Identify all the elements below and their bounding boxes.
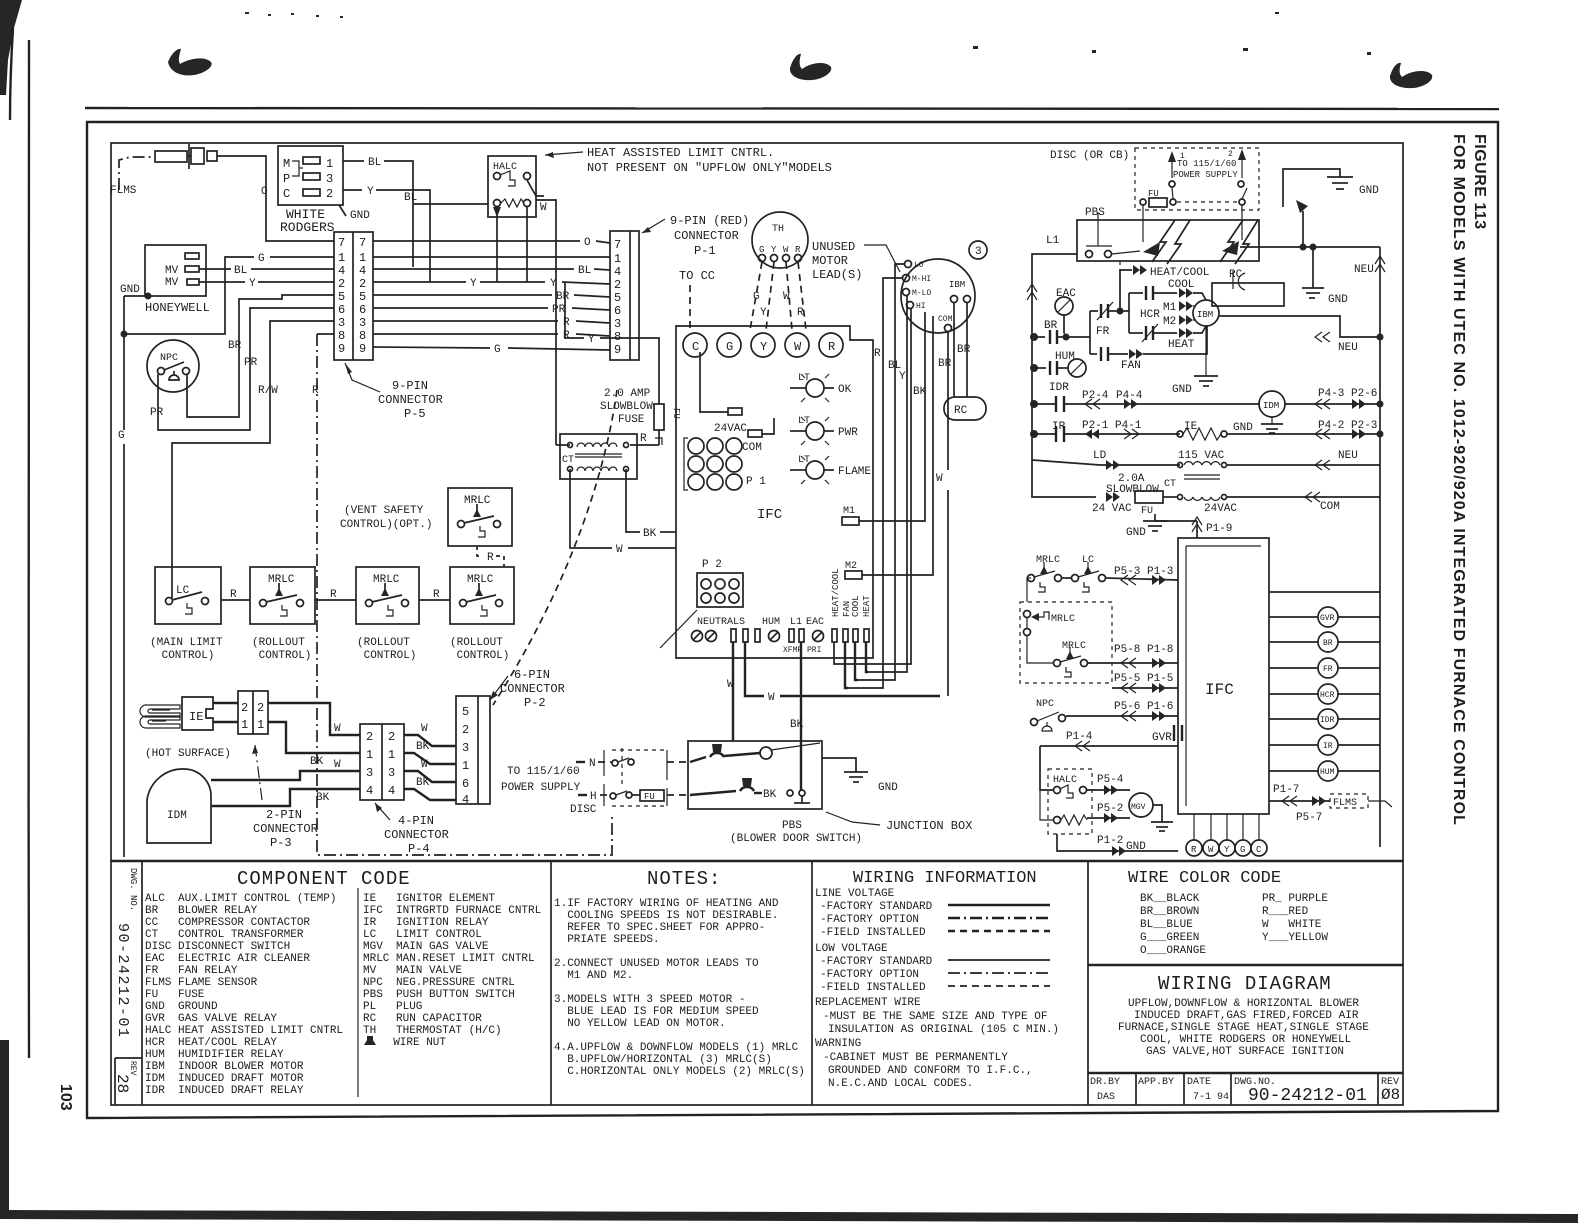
- svg-text:3: 3: [326, 172, 333, 186]
- svg-text:DATE: DATE: [1187, 1077, 1211, 1088]
- svg-text:TO 115/1/60: TO 115/1/60: [1177, 159, 1236, 169]
- svg-text:NPC: NPC: [1036, 699, 1054, 710]
- svg-text:OK: OK: [838, 384, 852, 396]
- svg-text:C: C: [1256, 845, 1262, 855]
- label TO CC: [679, 269, 715, 330]
- svg-text:CONNECTOR: CONNECTOR: [378, 393, 443, 407]
- capacitor HUM row: [1034, 351, 1086, 377]
- svg-text:24VAC: 24VAC: [1204, 503, 1237, 515]
- svg-text:NOTES:: NOTES:: [647, 868, 721, 890]
- svg-text:FAN: FAN: [1121, 360, 1141, 372]
- wiring information text: [815, 888, 1059, 1090]
- svg-text:2.0 AMP: 2.0 AMP: [604, 388, 651, 400]
- label 9-PIN (RED) CONNECTOR P-1: [642, 214, 749, 258]
- svg-text:P: P: [283, 172, 290, 186]
- ground symbol at junction box: [844, 772, 898, 794]
- svg-text:(ROLLOUT: (ROLLOUT: [450, 637, 503, 649]
- relay FR: [1269, 658, 1380, 678]
- wire Y from HALC bottom: [497, 207, 527, 282]
- circled 3: [969, 241, 987, 259]
- svg-text:PL PLUG: PL PLUG: [363, 1001, 422, 1013]
- svg-text:-CABINET MUST BE PERMANENTLY: -CABINET MUST BE PERMANENTLY: [823, 1052, 1008, 1064]
- svg-text:P 1: P 1: [746, 476, 766, 488]
- wire legend line samples: [948, 905, 1050, 986]
- svg-text:BK: BK: [643, 528, 657, 540]
- terminal M2: [845, 561, 862, 579]
- svg-text:CONTROL): CONTROL): [357, 650, 416, 662]
- svg-text:LT: LT: [798, 373, 810, 384]
- svg-text:CT: CT: [562, 455, 574, 466]
- svg-text:MRLC: MRLC: [1036, 555, 1060, 566]
- component code divider: [357, 888, 359, 1097]
- riser to HEAT/COOL arrow: [1120, 270, 1132, 311]
- quick connect 24VAC: [700, 352, 747, 435]
- svg-text:G: G: [753, 291, 760, 303]
- svg-text:FLMS: FLMS: [1333, 798, 1357, 809]
- junction wires inside: [690, 753, 810, 803]
- svg-text:W: W: [768, 692, 775, 704]
- svg-text:2: 2: [241, 701, 248, 715]
- svg-text:(BLOWER DOOR SWITCH): (BLOWER DOOR SWITCH): [730, 833, 862, 845]
- svg-text:8: 8: [614, 330, 621, 344]
- label HEAT ASSISTED LIMIT CNTRL: [545, 146, 832, 175]
- svg-text:-FACTORY STANDARD: -FACTORY STANDARD: [820, 956, 933, 968]
- svg-text:UPFLOW,DOWNFLOW & HORIZONTAL B: UPFLOW,DOWNFLOW & HORIZONTAL BLOWER: [1128, 998, 1359, 1010]
- relay BR: [1269, 632, 1380, 652]
- svg-text:FIGURE 113: FIGURE 113: [1471, 134, 1488, 230]
- svg-text:GND: GND: [1126, 527, 1146, 539]
- svg-text:LC LIMIT CONTROL: LC LIMIT CONTROL: [363, 929, 482, 941]
- svg-text:4: 4: [614, 265, 621, 279]
- 9-pin connector P-5: [334, 232, 373, 360]
- wire color code divider: [1087, 861, 1089, 1105]
- svg-text:P5-7: P5-7: [1296, 812, 1322, 824]
- wire BR IBM pin to RC: [938, 303, 967, 397]
- svg-text:MV: MV: [165, 277, 179, 289]
- svg-text:MGV MAIN GAS VALVE: MGV MAIN GAS VALVE: [363, 941, 489, 953]
- svg-text:MRLC: MRLC: [1051, 614, 1075, 625]
- wiring diagram box top rule: [1088, 964, 1403, 966]
- svg-text:GAS VALVE,HOT SURFACE IGNITION: GAS VALVE,HOT SURFACE IGNITION: [1146, 1046, 1344, 1058]
- svg-text:CT: CT: [1164, 479, 1176, 490]
- svg-text:RODGERS: RODGERS: [280, 220, 335, 235]
- svg-text:W: W: [783, 291, 790, 303]
- svg-text:GND: GND: [120, 284, 140, 296]
- svg-text:G: G: [118, 430, 125, 442]
- wire BR pin5 staircase: [187, 295, 334, 417]
- svg-text:LD: LD: [1093, 450, 1107, 462]
- svg-text:W: W: [421, 723, 428, 735]
- svg-text:BK: BK: [316, 792, 330, 804]
- svg-text:BR BLOWER RELAY: BR BLOWER RELAY: [145, 905, 258, 917]
- svg-text:R: R: [828, 340, 835, 354]
- dashed drop from PBS to FR node: [1119, 261, 1121, 308]
- svg-text:H: H: [590, 791, 597, 803]
- svg-text:COOL: COOL: [1168, 279, 1194, 291]
- relay coil IDR row: [1032, 382, 1260, 412]
- svg-text:4: 4: [462, 793, 469, 807]
- flame sensor FLMS lead wire: [110, 157, 155, 197]
- lamp LT FLAME: [790, 455, 871, 484]
- control transformer CT right: [1106, 473, 1227, 500]
- wire R between MRLC2 and MRLC3: [419, 589, 450, 601]
- dwg-no sidebar: [113, 861, 142, 1105]
- svg-text:R: R: [312, 385, 319, 397]
- terminal W: [785, 333, 809, 357]
- svg-text:M-HI: M-HI: [912, 275, 931, 284]
- ground MGV: [1126, 805, 1173, 853]
- svg-text:FU: FU: [1141, 506, 1153, 517]
- white rodgers gas valve box: [278, 146, 343, 235]
- svg-text:R: R: [1191, 845, 1197, 855]
- svg-text:8: 8: [338, 329, 345, 343]
- main limit control LC box: [150, 567, 223, 662]
- node on L1 rail: [1030, 333, 1038, 438]
- wire W CT to IFC: [570, 469, 676, 556]
- relay HCR: [1269, 684, 1380, 704]
- wire nut 1: [710, 744, 724, 757]
- quick connect COM: [742, 418, 774, 454]
- svg-text:NPC NEG.PRESSURE CNTRL: NPC NEG.PRESSURE CNTRL: [363, 977, 515, 989]
- main gas valve MGV: [1129, 793, 1153, 817]
- svg-text:4: 4: [359, 264, 366, 278]
- svg-text:HUM HUMIDIFIER RELAY: HUM HUMIDIFIER RELAY: [145, 1049, 284, 1061]
- electric air cleaner EAC: [1055, 288, 1076, 337]
- wire P5-5 P1-5: [1112, 673, 1178, 693]
- svg-text:P1-2: P1-2: [1097, 835, 1123, 847]
- notes divider: [550, 861, 552, 1105]
- svg-text:XFMR PRI: XFMR PRI: [783, 646, 821, 655]
- svg-text:Y: Y: [588, 334, 595, 346]
- scan edge black bar bottom-left: [0, 1040, 9, 1215]
- svg-text:HALC: HALC: [1053, 775, 1077, 786]
- svg-text:P-2: P-2: [524, 696, 546, 710]
- svg-text:9-PIN (RED): 9-PIN (RED): [670, 214, 749, 228]
- svg-text:GROUNDED AND CONFORM TO I.F.C.: GROUNDED AND CONFORM TO I.F.C.,: [828, 1065, 1033, 1077]
- svg-text:BL: BL: [368, 157, 381, 169]
- svg-text:DR.BY: DR.BY: [1090, 1077, 1120, 1088]
- svg-text:HEAT ASSISTED LIMIT CNTRL.: HEAT ASSISTED LIMIT CNTRL.: [587, 146, 774, 160]
- relay IDR: [1269, 709, 1380, 729]
- wire IBM to NEU row: [1219, 316, 1384, 354]
- wire R between LC and MRLC1: [221, 589, 250, 601]
- svg-text:2-PIN: 2-PIN: [266, 808, 302, 822]
- svg-text:W: W: [421, 759, 428, 771]
- wire P5-3 P1-3: [1062, 566, 1178, 585]
- relay coil IR row: [1032, 420, 1180, 442]
- 2-pin connector P-3: [238, 691, 268, 734]
- wire L1 rail: [1027, 254, 1077, 460]
- svg-text:28: 28: [113, 1074, 131, 1093]
- svg-text:1: 1: [388, 748, 395, 762]
- svg-text:4.A.UPFLOW & DOWNFLOW MODELS (: 4.A.UPFLOW & DOWNFLOW MODELS (1) MRLC: [554, 1042, 799, 1054]
- svg-text:PR: PR: [244, 357, 258, 369]
- top rule line 2 / outer frame: [87, 122, 1498, 1118]
- wire Y bundle: [868, 296, 907, 672]
- svg-text:Y: Y: [550, 278, 557, 290]
- svg-text:LT: LT: [798, 416, 810, 427]
- svg-text:WARNING: WARNING: [815, 1038, 861, 1050]
- wire nut flag on L1 feed: [1296, 200, 1308, 247]
- svg-text:EAC ELECTRIC AIR CLEANER: EAC ELECTRIC AIR CLEANER: [145, 953, 310, 965]
- svg-text:IFC: IFC: [757, 507, 782, 523]
- svg-text:GVR GAS VALVE RELAY: GVR GAS VALVE RELAY: [145, 1013, 277, 1025]
- svg-text:9: 9: [338, 342, 345, 356]
- svg-text:5: 5: [614, 291, 621, 305]
- wire R/W pin3 staircase: [172, 321, 334, 598]
- svg-text:R: R: [874, 348, 881, 360]
- svg-text:(VENT SAFETY: (VENT SAFETY: [344, 505, 424, 517]
- svg-text:N: N: [589, 758, 596, 770]
- inner schematic frame: [111, 143, 1403, 1105]
- connector grid P 2: [660, 559, 743, 648]
- wiring information title: [853, 869, 1037, 888]
- scan edge wedge top-left: [0, 0, 22, 120]
- wire W CT primary: [556, 444, 570, 446]
- svg-text:HEAT/COOL: HEAT/COOL: [1150, 267, 1209, 279]
- heat assisted limit control HALC right dashed: [1040, 746, 1092, 834]
- svg-text:-MUST BE THE SAME SIZE AND TYP: -MUST BE THE SAME SIZE AND TYPE OF: [823, 1011, 1047, 1023]
- svg-text:Y: Y: [760, 340, 767, 354]
- node junction on G rail: [121, 331, 128, 338]
- svg-text:R: R: [563, 317, 570, 329]
- svg-text:W: W: [616, 544, 623, 556]
- svg-text:1.IF FACTORY WIRING OF HEATING: 1.IF FACTORY WIRING OF HEATING AND: [554, 898, 779, 910]
- svg-text:IDR INDUCED DRAFT RELAY: IDR INDUCED DRAFT RELAY: [145, 1085, 304, 1097]
- svg-text:FOR MODELS WITH UTEC NO. 1012-: FOR MODELS WITH UTEC NO. 1012-920/920A I…: [1450, 134, 1467, 826]
- bottom panel top rule: [111, 860, 1403, 862]
- svg-text:P1-9: P1-9: [1206, 523, 1232, 535]
- svg-text:TH: TH: [772, 224, 784, 235]
- terminal screws and slots: [692, 629, 870, 642]
- label DISC (OR CB): [1050, 150, 1129, 162]
- svg-text:BL: BL: [234, 265, 247, 277]
- wire W neutral slot2 right: [745, 642, 940, 704]
- svg-text:9: 9: [614, 343, 621, 357]
- wire P5-4 to MGV: [1087, 774, 1130, 795]
- svg-text:IDR: IDR: [1049, 382, 1069, 394]
- ignitor element IE hot surface plug: [140, 697, 213, 730]
- wire Y to fuse: [565, 282, 659, 396]
- svg-text:IR: IR: [1323, 742, 1333, 751]
- svg-text:HCR HEAT/COOL RELAY: HCR HEAT/COOL RELAY: [145, 1037, 277, 1049]
- svg-text:R: R: [230, 589, 237, 601]
- svg-text:Y: Y: [249, 278, 256, 290]
- svg-text:O: O: [584, 237, 591, 249]
- svg-text:UNUSED: UNUSED: [812, 240, 855, 254]
- svg-text:IBM: IBM: [949, 280, 965, 290]
- svg-text:2: 2: [1228, 150, 1233, 159]
- bracket cool/heat rows: [1120, 293, 1129, 333]
- wire to GND from junction box: [822, 758, 856, 772]
- svg-text:DISC (OR CB): DISC (OR CB): [1050, 150, 1129, 162]
- svg-text:COM: COM: [938, 315, 953, 324]
- label L1: [1046, 235, 1060, 247]
- svg-text:MRLC: MRLC: [1062, 641, 1086, 652]
- svg-text:Ø8: Ø8: [1381, 1086, 1400, 1104]
- dashed option box MRLC: [1020, 578, 1112, 683]
- svg-text:6: 6: [338, 303, 345, 317]
- terminal C: [683, 333, 707, 357]
- ignitor element IE resistor right: [1177, 420, 1384, 440]
- contact heat row: [1129, 324, 1206, 351]
- wire W from HALC: [527, 180, 556, 445]
- svg-text:POWER SUPPLY: POWER SUPPLY: [1173, 170, 1238, 180]
- wire BK IDM to 4-pin: [211, 789, 360, 806]
- svg-text:SLOWBLOW: SLOWBLOW: [600, 401, 653, 413]
- svg-text:MRLC MAN.RESET LIMIT CNTRL: MRLC MAN.RESET LIMIT CNTRL: [363, 953, 535, 965]
- indoor blower motor IBM circle right: [1193, 300, 1219, 326]
- svg-text:IDR: IDR: [1320, 716, 1335, 725]
- svg-text:C: C: [692, 340, 699, 354]
- svg-text:HEAT: HEAT: [862, 595, 872, 617]
- svg-text:BL: BL: [578, 265, 591, 277]
- svg-text:FLMS: FLMS: [110, 185, 137, 197]
- wire R fuse to CT: [630, 433, 662, 445]
- svg-text:8: 8: [359, 329, 366, 343]
- ink blob 3: [1390, 63, 1432, 88]
- svg-text:WIRING DIAGRAM: WIRING DIAGRAM: [1158, 973, 1332, 995]
- svg-text:3: 3: [359, 316, 366, 330]
- svg-text:MV MAIN VALVE: MV MAIN VALVE: [363, 965, 462, 977]
- svg-text:M1 AND M2.: M1 AND M2.: [554, 970, 633, 982]
- svg-text:C: C: [283, 187, 290, 201]
- svg-text:BLUE LEAD IS FOR MEDIUM SPEED: BLUE LEAD IS FOR MEDIUM SPEED: [554, 1006, 759, 1018]
- svg-text:W: W: [334, 759, 341, 771]
- wire BK L1 down: [790, 642, 804, 790]
- wires 4-pin to 6-pin W BK W BK: [404, 723, 456, 800]
- lamp LT PWR: [790, 416, 858, 445]
- indoor blower motor IBM: [901, 259, 975, 333]
- junction box: [688, 741, 822, 809]
- svg-text:BK: BK: [416, 777, 430, 789]
- NPC lead PR: [150, 407, 164, 419]
- induced draft motor IDM: [147, 769, 211, 843]
- svg-text:4-PIN: 4-PIN: [398, 814, 434, 828]
- svg-text:CT CONTROL TRANSFORMER: CT CONTROL TRANSFORMER: [145, 929, 304, 941]
- wire P1-4: [1040, 731, 1178, 751]
- svg-text:W: W: [936, 473, 943, 485]
- svg-text:R: R: [795, 245, 801, 255]
- svg-text:1: 1: [1180, 152, 1185, 161]
- svg-text:CONNECTOR: CONNECTOR: [674, 229, 739, 243]
- wires IE to 2-pin: [213, 703, 238, 722]
- wiring diagram description: [1118, 998, 1369, 1058]
- terminal R: [819, 333, 843, 357]
- svg-text:NEU: NEU: [1354, 264, 1374, 276]
- arrow HEAT/COOL: [1133, 265, 1209, 279]
- svg-text:BR: BR: [957, 344, 971, 356]
- svg-text:BR: BR: [228, 340, 242, 352]
- svg-text:(ROLLOUT: (ROLLOUT: [357, 637, 410, 649]
- svg-text:P5-2: P5-2: [1097, 803, 1123, 815]
- svg-text:PBS: PBS: [1085, 207, 1105, 219]
- fan relay FR branch: [1090, 302, 1124, 354]
- svg-text:BR: BR: [1323, 639, 1333, 648]
- svg-text:O: O: [261, 186, 268, 198]
- svg-text:HALC: HALC: [493, 162, 517, 173]
- wire R between MRLC1 and MRLC2: [315, 589, 356, 601]
- svg-text:BR: BR: [556, 291, 570, 303]
- power supply dashed box top right: [1135, 148, 1259, 210]
- contact HCR cool row: [1129, 279, 1206, 321]
- wire R bundle: [848, 278, 902, 688]
- svg-text:Y: Y: [760, 307, 767, 319]
- svg-text:2: 2: [359, 277, 366, 291]
- svg-text:GND: GND: [1359, 185, 1379, 197]
- svg-text:NEU: NEU: [1338, 450, 1358, 462]
- vent safety control MRLC box: [340, 488, 512, 546]
- switch MRLC in dashed box 1: [1024, 611, 1076, 636]
- svg-text:W: W: [1208, 845, 1214, 855]
- svg-text:1: 1: [338, 251, 345, 265]
- label PBS blower door switch: [730, 820, 862, 845]
- svg-text:C.HORIZONTAL ONLY MODELS (2) M: C.HORIZONTAL ONLY MODELS (2) MRLC(S): [554, 1066, 805, 1078]
- svg-text:PR: PR: [552, 304, 566, 316]
- terminal M1: [842, 506, 859, 525]
- svg-text:FU FUSE: FU FUSE: [145, 989, 205, 1001]
- svg-text:W: W: [540, 202, 547, 214]
- label TO 115/1/60 POWER SUPPLY (left): [501, 766, 581, 794]
- svg-text:2: 2: [326, 187, 333, 201]
- svg-text:GND: GND: [878, 782, 898, 794]
- ink blob 2: [790, 54, 831, 80]
- svg-text:P5-8 P1-8: P5-8 P1-8: [1114, 644, 1173, 656]
- svg-text:Y: Y: [470, 278, 477, 290]
- svg-text:CONNECTOR: CONNECTOR: [253, 822, 318, 836]
- wire BL from HALC to BL row: [404, 192, 488, 204]
- component code column1: [145, 893, 343, 1097]
- svg-text:M1: M1: [1163, 302, 1177, 314]
- svg-text:6: 6: [359, 303, 366, 317]
- lightning bolt arrow 2: [1220, 220, 1259, 264]
- svg-text:R: R: [487, 552, 494, 564]
- svg-text:R: R: [433, 589, 440, 601]
- svg-text:B.UPFLOW/HORIZONTAL (3) MRLC(S: B.UPFLOW/HORIZONTAL (3) MRLC(S): [554, 1054, 772, 1066]
- svg-text:FR: FR: [1096, 326, 1110, 338]
- svg-text:IFC INTRGRTD FURNACE CNTRL: IFC INTRGRTD FURNACE CNTRL: [363, 905, 541, 917]
- wires P-5 to P-1 rows: [373, 237, 610, 356]
- rollout control MRLC box 1: [250, 567, 315, 662]
- svg-text:CONNECTOR: CONNECTOR: [500, 682, 565, 696]
- svg-text:M: M: [283, 157, 290, 171]
- svg-text:2: 2: [614, 278, 621, 292]
- svg-text:P5-5 P1-5: P5-5 P1-5: [1114, 673, 1173, 685]
- wire BK CT to IFC: [626, 469, 676, 540]
- run capacitor RC top right: [1212, 269, 1284, 306]
- svg-text:P5-6 P1-6: P5-6 P1-6: [1114, 701, 1173, 713]
- svg-text:-FIELD INSTALLED: -FIELD INSTALLED: [820, 927, 926, 939]
- label 2-PIN CONNECTOR P-3: [252, 745, 318, 850]
- disconnect switch DISC dashed box: [604, 748, 690, 806]
- ground symbol mid right on NEU feed: [1302, 244, 1348, 307]
- svg-text:P-1: P-1: [694, 244, 716, 258]
- svg-text:G: G: [1240, 845, 1245, 855]
- svg-text:P4-2 P2-3: P4-2 P2-3: [1318, 420, 1377, 432]
- induced draft motor IDM circle right: [1259, 388, 1384, 417]
- scan edge vertical line left: [27, 40, 30, 1058]
- push button switch PBS box: [1077, 207, 1259, 261]
- svg-text:6: 6: [462, 777, 469, 791]
- svg-text:IDM: IDM: [1263, 401, 1279, 411]
- wiring diagram title: [1158, 973, 1332, 995]
- ground under IDM: [1233, 417, 1283, 434]
- svg-text:WIRING INFORMATION: WIRING INFORMATION: [853, 869, 1037, 888]
- svg-text:6: 6: [614, 304, 621, 318]
- svg-text:2: 2: [257, 701, 264, 715]
- svg-text:BK: BK: [416, 741, 430, 753]
- svg-text:PRIATE SPEEDS.: PRIATE SPEEDS.: [554, 934, 660, 946]
